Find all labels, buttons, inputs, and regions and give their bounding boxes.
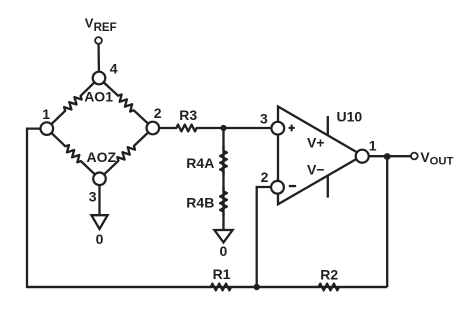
svg-text:R4A: R4A xyxy=(186,155,214,171)
svg-text:0: 0 xyxy=(96,231,104,247)
svg-text:R2: R2 xyxy=(320,266,338,282)
svg-text:OUT: OUT xyxy=(430,156,454,168)
svg-text:R3: R3 xyxy=(179,107,197,123)
svg-text:V−: V− xyxy=(307,161,325,177)
svg-text:REF: REF xyxy=(94,22,117,34)
svg-text:V: V xyxy=(85,15,94,30)
svg-text:4: 4 xyxy=(110,61,118,77)
svg-text:V+: V+ xyxy=(307,135,325,151)
svg-text:AO1: AO1 xyxy=(84,88,113,104)
svg-text:1: 1 xyxy=(42,106,50,122)
svg-text:R1: R1 xyxy=(213,266,231,282)
svg-text:R4B: R4B xyxy=(186,195,214,211)
svg-text:0: 0 xyxy=(220,243,228,259)
svg-text:2: 2 xyxy=(261,169,269,185)
svg-text:AOZ: AOZ xyxy=(87,149,117,165)
svg-text:2: 2 xyxy=(154,105,162,121)
svg-text:U10: U10 xyxy=(337,108,363,124)
svg-text:3: 3 xyxy=(89,189,97,205)
svg-text:1: 1 xyxy=(369,137,377,153)
svg-text:3: 3 xyxy=(260,111,268,127)
